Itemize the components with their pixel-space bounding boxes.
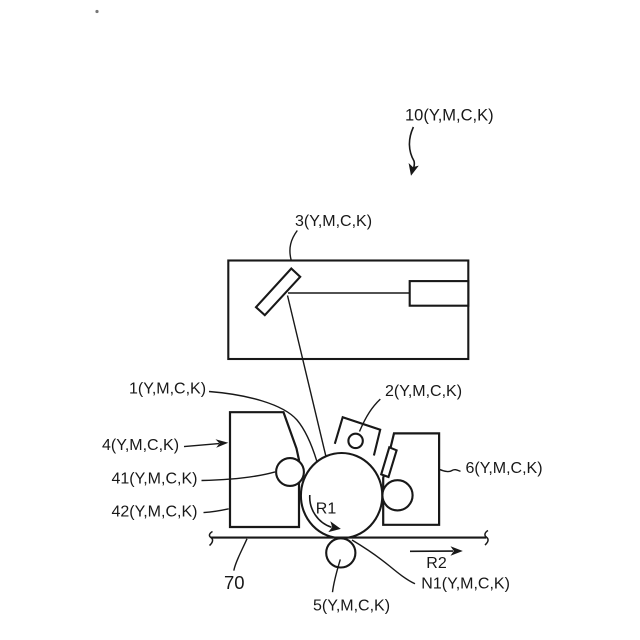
leader of 42 [204, 509, 229, 513]
arrowhead of R1 [328, 521, 341, 532]
transfer roller 5 [326, 538, 355, 567]
R2 arrow [410, 550, 453, 552]
supply roller 41 [276, 458, 304, 486]
polygon mirror 3 [256, 269, 300, 316]
cleaning blade [381, 447, 396, 477]
leader arrow to unit 10 [409, 127, 414, 171]
arrow of 4 [184, 444, 219, 447]
svg-text:70: 70 [224, 572, 245, 593]
charger housing 2 (open tilted square) [335, 417, 380, 455]
belt break mark right [485, 531, 488, 546]
leader of 41 [202, 472, 276, 481]
svg-text:4(Y,M,C,K): 4(Y,M,C,K) [102, 437, 179, 454]
svg-text:41(Y,M,C,K): 41(Y,M,C,K) [112, 470, 198, 487]
svg-text:6(Y,M,C,K): 6(Y,M,C,K) [466, 460, 543, 477]
svg-text:R2: R2 [426, 555, 447, 572]
leader of N1 [352, 540, 415, 584]
cleaning roller [382, 480, 412, 510]
arrowhead of 10 leader [409, 163, 419, 176]
svg-text:R1: R1 [316, 500, 337, 517]
leader of 2 to charger roller [360, 399, 381, 431]
beam to drum [288, 296, 326, 457]
svg-text:N1(Y,M,C,K): N1(Y,M,C,K) [421, 576, 510, 593]
svg-text:5(Y,M,C,K): 5(Y,M,C,K) [313, 598, 390, 615]
photoreceptor drum 1 [301, 453, 382, 538]
svg-text:2(Y,M,C,K): 2(Y,M,C,K) [385, 383, 462, 400]
svg-text:10(Y,M,C,K): 10(Y,M,C,K) [405, 107, 494, 125]
svg-text:3(Y,M,C,K): 3(Y,M,C,K) [295, 213, 372, 230]
leader of 1 to drum [209, 392, 317, 461]
laser source rect [410, 281, 469, 306]
R1 rotation arc [310, 495, 332, 527]
leader of 70 [234, 539, 247, 571]
arrowhead of 4 [216, 439, 229, 448]
stray speck [95, 10, 98, 13]
exposure unit housing (box of 3) [228, 261, 468, 360]
svg-text:42(Y,M,C,K): 42(Y,M,C,K) [112, 504, 198, 521]
arrowhead of R2 [451, 546, 463, 556]
charger roller 2 [348, 434, 362, 448]
beam horizontal line [288, 292, 410, 294]
cleaning unit 6 [383, 433, 439, 524]
leader of 6 [439, 469, 460, 471]
leader of 3 [290, 231, 297, 261]
belt break mark left [209, 532, 212, 546]
svg-text:1(Y,M,C,K): 1(Y,M,C,K) [129, 380, 206, 397]
transfer belt 70 [211, 537, 486, 539]
leader of 5 [333, 559, 341, 592]
developing unit 4 [230, 412, 299, 527]
